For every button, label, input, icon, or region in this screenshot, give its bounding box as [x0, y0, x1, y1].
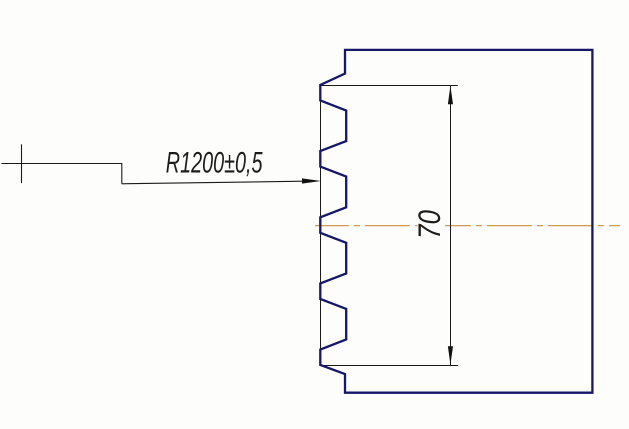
- dim70 extension line bottom: [320, 365, 458, 367]
- dim70 dimension line: [450, 86, 452, 366]
- dim70 extension line top: [320, 85, 458, 87]
- leader horizontal from cross: [2, 163, 123, 165]
- svg-text:R1200±0,5: R1200±0,5: [166, 147, 263, 180]
- part outline (thick navy) with serrated left edge: [320, 50, 592, 393]
- leader arrow: [302, 178, 321, 183]
- serration tip line (thin): [320, 85, 322, 366]
- dim70 arrow up: [448, 86, 453, 105]
- svg-text:70: 70: [412, 210, 447, 239]
- centerline (orange dash-dot axis): [315, 225, 620, 227]
- leader shelf to arrow: [122, 181, 303, 184]
- centerline gap behind 70 text: [418, 199, 446, 239]
- leader step down: [121, 164, 123, 184]
- radius center cross vertical: [21, 144, 23, 183]
- dim70 arrow down: [448, 346, 453, 365]
